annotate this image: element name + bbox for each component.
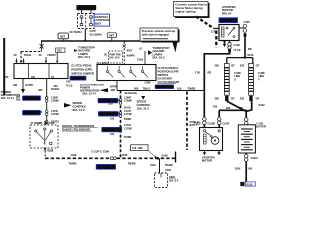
- svg-text:5.0L 10M: 5.0L 10M: [132, 147, 142, 150]
- svg-text:C169M: C169M: [124, 99, 132, 102]
- svg-text:YE/LB: YE/LB: [24, 53, 32, 57]
- svg-text:SWITCH: SWITCH: [158, 73, 169, 77]
- svg-text:50-15A: 50-15A: [222, 20, 230, 23]
- svg-text:30 YE/WH: 30 YE/WH: [70, 30, 82, 34]
- svg-text:1050: 1050: [235, 167, 241, 171]
- svg-text:C170M: C170M: [124, 127, 132, 130]
- svg-text:EEC: EEC: [57, 50, 62, 53]
- svg-text:DIA. 13-14: DIA. 13-14: [83, 92, 97, 96]
- svg-text:C1002: C1002: [251, 157, 259, 160]
- svg-text:30-12 TB: 30-12 TB: [104, 129, 115, 132]
- svg-text:BT: BT: [231, 96, 235, 100]
- svg-text:1049: 1049: [71, 153, 77, 157]
- svg-text:C170M: C170M: [124, 113, 132, 116]
- svg-text:AT ONLY: AT ONLY: [31, 122, 41, 125]
- svg-text:290: 290: [215, 96, 220, 100]
- svg-text:M/T: M/T: [109, 34, 114, 38]
- svg-text:TN/RD: TN/RD: [188, 86, 196, 90]
- svg-text:260: 260: [213, 106, 218, 109]
- svg-text:230: 230: [240, 96, 245, 100]
- svg-text:LG: LG: [139, 48, 143, 51]
- svg-text:DIA. 20-2: DIA. 20-2: [153, 56, 165, 60]
- svg-text:76 LB: 76 LB: [66, 85, 73, 88]
- svg-text:30-2 NB: 30-2 NB: [25, 112, 34, 115]
- svg-text:38 OG: 38 OG: [124, 106, 131, 109]
- svg-text:OF: OF: [256, 96, 260, 100]
- svg-text:OG/OG: OG/OG: [51, 88, 59, 91]
- svg-text:W-10PE: W-10PE: [158, 87, 167, 89]
- svg-text:DIA. 8-5: DIA. 8-5: [169, 179, 179, 182]
- svg-text:BOX: BOX: [95, 21, 101, 25]
- svg-text:DIA. 20-2: DIA. 20-2: [78, 55, 90, 59]
- svg-text:G100: G100: [246, 183, 253, 186]
- svg-text:DIGITAL TRANSMISSION: DIGITAL TRANSMISSION: [62, 124, 94, 128]
- svg-text:DIA. 31-2: DIA. 31-2: [73, 108, 85, 112]
- svg-text:290: 290: [215, 64, 220, 68]
- svg-text:481: 481: [13, 83, 18, 87]
- svg-text:1049: 1049: [122, 153, 128, 157]
- svg-text:CLUTCH PEDAL: CLUTCH PEDAL: [71, 64, 92, 68]
- svg-text:1049: 1049: [150, 164, 156, 167]
- svg-text:100: 100: [177, 86, 182, 90]
- svg-text:TN/RD: TN/RD: [124, 118, 132, 121]
- svg-text:THIRD: THIRD: [124, 136, 132, 139]
- svg-text:TN/LG: TN/LG: [143, 86, 151, 90]
- svg-text:S207: S207: [127, 50, 133, 53]
- svg-text:C170M: C170M: [51, 113, 59, 116]
- svg-text:C103M: C103M: [208, 123, 215, 125]
- svg-text:DIA. 31-2: DIA. 31-2: [137, 107, 149, 111]
- svg-text:306: 306: [134, 86, 139, 90]
- svg-text:YE/WH: YE/WH: [47, 53, 56, 57]
- svg-text:RD: RD: [208, 70, 212, 74]
- svg-text:MOTOR: MOTOR: [202, 159, 212, 163]
- svg-text:DIA. 13-14: DIA. 13-14: [1, 96, 15, 100]
- svg-text:30-12 HB: 30-12 HB: [100, 113, 111, 116]
- svg-text:100: 100: [110, 118, 115, 121]
- svg-text:RD: RD: [248, 48, 252, 51]
- svg-text:C149: C149: [234, 43, 241, 47]
- svg-text:WH/PK: WH/PK: [127, 55, 135, 58]
- svg-text:C05: C05: [66, 81, 71, 84]
- svg-text:DIA. 10-2: DIA. 10-2: [110, 57, 121, 60]
- svg-text:230: 230: [240, 64, 245, 68]
- svg-text:100: 100: [110, 133, 115, 136]
- svg-text:C-COP C-COM: C-COP C-COM: [91, 150, 109, 154]
- svg-text:S103: S103: [247, 53, 254, 57]
- svg-text:C269: C269: [137, 59, 144, 62]
- svg-text:BATTERY: BATTERY: [256, 126, 266, 129]
- svg-text:TN/RD: TN/RD: [128, 161, 136, 165]
- svg-text:CH-CHT/WTH: CH-CHT/WTH: [158, 78, 173, 80]
- svg-text:C269: C269: [145, 82, 152, 85]
- svg-text:POSITION (CPP): POSITION (CPP): [158, 69, 179, 73]
- svg-text:30 LB/WH: 30 LB/WH: [90, 33, 102, 37]
- svg-text:TN/RD: TN/RD: [68, 161, 76, 165]
- svg-text:C1035: C1035: [194, 123, 201, 125]
- svg-text:CLUTCH PEDAL: CLUTCH PEDAL: [158, 66, 179, 70]
- svg-text:S106: S106: [162, 153, 169, 157]
- svg-text:M/T: M/T: [60, 35, 65, 39]
- svg-text:RELAY: RELAY: [222, 12, 232, 16]
- svg-text:BT: BT: [231, 64, 235, 68]
- svg-text:30B: 30B: [111, 89, 116, 92]
- svg-text:OF: OF: [5, 76, 9, 79]
- svg-text:S102: S102: [259, 103, 266, 107]
- svg-text:PK/RD: PK/RD: [165, 164, 173, 167]
- svg-text:C186: C186: [49, 122, 55, 125]
- svg-text:17 LB: 17 LB: [233, 48, 240, 52]
- svg-text:30 LB/WH: 30 LB/WH: [97, 61, 109, 65]
- svg-text:OF: OF: [256, 64, 260, 68]
- svg-text:39 OG/OG: 39 OG/OG: [125, 91, 137, 95]
- svg-text:305: 305: [38, 89, 43, 92]
- svg-text:SW): SW): [16, 100, 21, 102]
- svg-text:C169M: C169M: [51, 100, 59, 103]
- svg-text:SWITCH JUMPER: SWITCH JUMPER: [71, 71, 94, 75]
- svg-text:C270: C270: [90, 29, 97, 33]
- svg-text:C156: C156: [165, 169, 172, 172]
- svg-text:BT/PE: BT/PE: [26, 83, 34, 87]
- svg-text:17B: 17B: [195, 70, 200, 74]
- svg-text:BK: BK: [249, 167, 253, 171]
- svg-text:engine starting: engine starting: [175, 9, 195, 13]
- svg-text:POSITION (CPP): POSITION (CPP): [71, 68, 92, 72]
- svg-text:with clutch engaged: with clutch engaged: [141, 33, 169, 37]
- svg-text:30-4 NB: 30-4 NB: [25, 98, 34, 101]
- svg-text:C168: C168: [244, 21, 251, 24]
- svg-text:30-J 10B: 30-J 10B: [100, 100, 110, 103]
- svg-text:30-T 10B: 30-T 10B: [99, 166, 110, 169]
- svg-text:260: 260: [226, 106, 231, 110]
- svg-text:C103F: C103F: [223, 123, 230, 125]
- svg-text:G: G: [234, 78, 236, 81]
- svg-text:RANGE (TR) SENSOR: RANGE (TR) SENSOR: [62, 127, 90, 131]
- svg-text:ON: ON: [31, 76, 35, 79]
- svg-text:HOT ALWAYS: HOT ALWAYS: [78, 6, 95, 10]
- svg-text:W-HOPE: W-HOPE: [72, 78, 82, 80]
